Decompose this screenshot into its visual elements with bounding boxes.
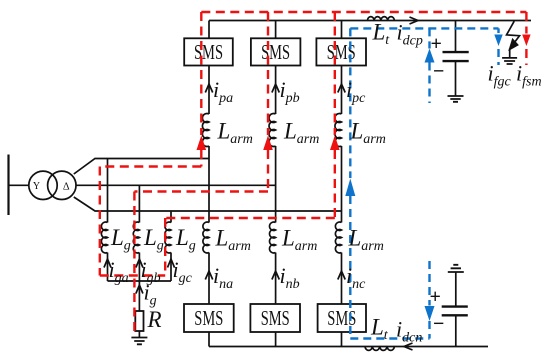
arrow i_gb <box>136 259 143 268</box>
wire: upper arm c <box>341 66 343 115</box>
wire: phase b line from transformer to node B <box>76 184 276 186</box>
arrow i_nc <box>338 271 345 280</box>
capacitor Cp plates <box>443 52 469 61</box>
svg-text:Larm: Larm <box>350 119 386 148</box>
blue path: capacitor Cn vertical <box>428 261 430 339</box>
wire: Larm3 to node C <box>341 146 343 223</box>
svg-text:Lg: Lg <box>110 225 131 254</box>
red path: arm c below arrow to AC <box>165 150 335 276</box>
red path: right vertical upper <box>525 12 527 34</box>
ground (DC midpoint top) <box>448 96 464 102</box>
blue path: top horizontal <box>350 27 498 29</box>
inductor Larm2 (upper arm b) <box>269 114 276 147</box>
SMS lower c <box>318 304 366 332</box>
inductor Larm4 (lower arm a) <box>203 222 209 253</box>
arrow i_g <box>136 285 143 294</box>
transformer T1 primary winding (Y) <box>29 171 57 199</box>
wire: Lg2 to star point <box>138 253 140 282</box>
wire: ground to capacitor Cn <box>455 272 457 307</box>
wire: top bus stub to SMS2 <box>275 21 277 39</box>
wire: Lg branch c tap <box>170 211 172 223</box>
svg-text:−: − <box>433 61 444 83</box>
wire: node A down through lower arm a <box>208 159 210 223</box>
SMS upper a <box>184 38 366 332</box>
inductor Lg3 <box>165 222 171 253</box>
svg-text:ifsm: ifsm <box>516 61 542 90</box>
wire: top bus stub to SMS3 <box>341 21 343 39</box>
wire: Larm6 to lower SMS3 <box>341 253 343 305</box>
SMS lower b <box>250 304 300 332</box>
wire: Larm2 to node B <box>275 146 277 223</box>
bottom DC bus <box>209 346 488 348</box>
ground (neutral grounding) <box>131 338 147 345</box>
svg-text:SMS: SMS <box>194 306 223 330</box>
resistor R <box>135 311 143 331</box>
inductor Larm1 (upper arm a) <box>202 114 209 147</box>
svg-text:Lt: Lt <box>370 315 389 344</box>
wire: star point to resistor R <box>138 281 140 311</box>
svg-text:Larm: Larm <box>215 226 251 255</box>
svg-text:inb: inb <box>280 263 300 292</box>
svg-text:Larm: Larm <box>283 119 319 148</box>
blue dashed fault current path i_fgc <box>350 28 498 338</box>
blue arrow down (capacitor Cn) <box>425 306 435 321</box>
svg-text:Lg: Lg <box>175 225 196 254</box>
wire: capacitor Cp to ground <box>455 61 457 96</box>
red arrow up (arm b) <box>263 136 273 151</box>
svg-text:inc: inc <box>346 263 366 292</box>
svg-text:Larm: Larm <box>217 119 253 148</box>
red path: top horizontal <box>201 11 526 13</box>
svg-text:SMS: SMS <box>194 40 223 64</box>
svg-text:ipa: ipa <box>213 77 233 106</box>
inductor Lg2 <box>133 222 139 253</box>
SMS upper c <box>316 38 366 65</box>
svg-text:+: + <box>430 286 441 308</box>
svg-text:SMS: SMS <box>327 306 356 330</box>
svg-text:SMS: SMS <box>261 40 290 64</box>
arrow i_na <box>205 271 212 280</box>
inductor Larm5 (lower arm b) <box>270 222 276 253</box>
red path: right vertical lower <box>525 49 527 65</box>
red path: arm b below arrow to AC <box>134 150 268 331</box>
wire: Larm5 to lower SMS2 <box>275 253 277 305</box>
svg-text:ina: ina <box>213 263 233 292</box>
inductor Lt (top) <box>367 17 394 21</box>
blue path: bottom horizontal <box>350 337 429 339</box>
transformer T1 secondary winding (D) <box>48 171 76 199</box>
AC bus bar <box>7 155 9 216</box>
ground (fault point) <box>502 58 517 64</box>
red arrow up (arm a) <box>197 136 207 151</box>
wire: Lg branch a tap <box>107 159 109 223</box>
wire: Lg3 to star point <box>170 253 172 282</box>
inductor Lt (bottom) <box>365 347 394 351</box>
wire: star point bus <box>108 280 172 282</box>
svg-text:ipb: ipb <box>280 77 300 106</box>
wire: lower SMS3 stub to bottom bus <box>341 332 343 347</box>
wire: bus bar to transformer <box>9 184 29 186</box>
blue path: leg c vertical upper <box>349 28 351 178</box>
wire: capacitor Cn to bottom bus <box>455 315 457 346</box>
arrow i_dcp on top bus <box>410 17 419 24</box>
svg-text:Lt: Lt <box>372 20 391 49</box>
svg-text:Lg: Lg <box>143 225 164 254</box>
arrow i_pc <box>338 84 345 93</box>
fault arrowhead <box>509 39 517 49</box>
svg-text:R: R <box>147 307 162 332</box>
wire: lower SMS2 stub to bottom bus <box>275 332 277 347</box>
wire: Larm1 to node A <box>208 146 210 159</box>
red path: arm b vertical <box>267 12 269 135</box>
svg-text:iga: iga <box>109 257 129 286</box>
top DC bus <box>209 20 531 22</box>
arrow i_nb <box>272 271 279 280</box>
arrow i_pb <box>272 84 279 93</box>
blue arrow up (capacitor Cp) <box>425 49 435 63</box>
blue path: leg c vertical lower <box>349 196 351 339</box>
svg-text:igc: igc <box>173 257 193 286</box>
red path: bottom connector <box>100 274 165 276</box>
svg-text:Y: Y <box>33 181 40 192</box>
svg-text:SMS: SMS <box>261 306 290 330</box>
arrow i_ga <box>104 259 111 268</box>
wire: Lg branch b tap <box>138 185 140 222</box>
SMS upper b <box>251 38 301 65</box>
wire: Larm4 to lower SMS1 <box>208 253 210 305</box>
svg-text:idcn: idcn <box>396 317 422 346</box>
SMS labels <box>194 40 356 330</box>
svg-text:+: + <box>431 33 442 55</box>
wire: top bus stub to SMS1 <box>208 21 210 39</box>
svg-text:−: − <box>433 313 444 335</box>
inductor Larm3 (upper arm c) <box>335 114 342 147</box>
blue arrow up (leg c) <box>345 179 355 197</box>
svg-text:Larm: Larm <box>281 226 317 255</box>
red path: arm a below arrow to AC <box>100 150 202 276</box>
wire: top bus to capacitor Cp <box>455 21 457 53</box>
ground (DC midpoint bottom) <box>448 265 464 272</box>
wire: phase a line from transformer to node A <box>74 159 209 175</box>
wire: upper arm b <box>275 66 277 115</box>
arrow i_dcn on bottom bus <box>404 343 413 350</box>
svg-text:Δ: Δ <box>63 181 70 192</box>
red path: arm a vertical <box>200 12 202 135</box>
svg-text:ipc: ipc <box>346 77 366 106</box>
wire: Lg1 to star point <box>107 253 109 282</box>
svg-text:Larm: Larm <box>348 226 384 255</box>
red dashed fault current path i_fsm <box>100 12 527 331</box>
wire: fault to ground <box>509 49 511 58</box>
wire: phase c line from transformer to node C <box>74 197 342 211</box>
wire: resistor R to ground <box>138 331 140 338</box>
wire: upper arm a (SMS1 to Larm1) <box>208 66 210 115</box>
SMS lower a <box>184 304 234 332</box>
red arrow up (arm c) <box>330 136 340 151</box>
arrow i_gc <box>168 259 175 268</box>
red path: arm c vertical <box>334 12 336 135</box>
inductor Lg1 <box>101 222 107 253</box>
fault lightning bolt <box>507 21 520 41</box>
capacitor Cn plates <box>442 307 468 316</box>
wire: lower SMS1 stub to bottom bus <box>208 332 210 347</box>
blue path: right vertical to fault ground <box>497 28 499 65</box>
inductor Larm6 (lower arm c) <box>335 222 341 253</box>
arrow i_pa <box>205 84 212 93</box>
blue arrow down (i_fgc at fault) <box>494 35 502 47</box>
blue path: capacitor Cp vertical <box>428 28 430 103</box>
red arrow down (i_fsm) <box>522 35 530 47</box>
